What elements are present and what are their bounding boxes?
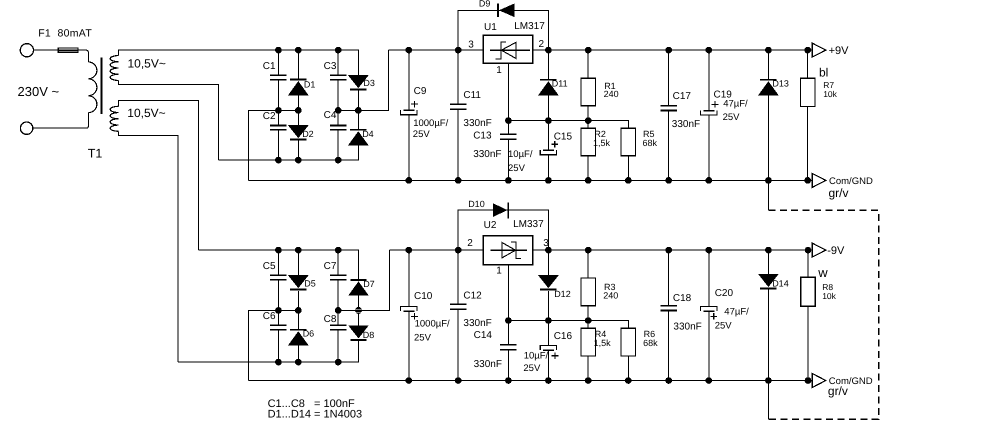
capacitor C16 (540, 345, 558, 359)
node bridge2 mid-left junctions (275, 307, 282, 314)
wire C9 leads (408, 50, 410, 180)
resistor R1 (581, 78, 595, 106)
fuse F1 (58, 48, 78, 52)
svg-text:C4: C4 (324, 110, 337, 121)
node top gnd rail junctions (405, 177, 412, 184)
wire C10 leads (408, 250, 410, 380)
mains terminal circle top (20, 44, 33, 57)
svg-text:330nF: 330nF (473, 149, 501, 160)
svg-text:10k: 10k (822, 291, 836, 301)
wire D13 leads (767, 50, 769, 180)
wire secondary2 upper lead (118, 100, 198, 250)
svg-text:330nF: 330nF (463, 318, 491, 329)
wire leg D1 upper (297, 50, 299, 110)
svg-text:2: 2 (467, 238, 473, 249)
capacitor C1 (270, 75, 287, 79)
node bridge2 mid C7-C8 (335, 307, 342, 314)
svg-text:D14: D14 (772, 278, 789, 288)
wire R4 leads (587, 321, 589, 381)
transformer T1 core (101, 57, 103, 114)
svg-text:D1...D14 = 1N4003: D1...D14 = 1N4003 (268, 409, 362, 421)
wire dashed ground link box (768, 210, 878, 419)
capacitor C15 (540, 141, 558, 155)
wire mains top to fuse (34, 49, 59, 51)
node AC1 upper rail junctions (275, 47, 282, 54)
wire D9 loop (458, 10, 548, 50)
svg-text:25V: 25V (523, 363, 541, 374)
svg-text:LM337: LM337 (513, 219, 544, 230)
wire leg D3 segment (357, 90, 359, 111)
wire C19 leads (708, 50, 710, 180)
svg-text:-9V: -9V (827, 245, 845, 257)
wire leg D7 segment (358, 295, 360, 310)
svg-text:D12: D12 (554, 289, 571, 299)
svg-text:68k: 68k (643, 338, 658, 348)
node adj rail junctions (505, 117, 512, 124)
capacitor C18 (660, 306, 677, 311)
svg-text:D11: D11 (552, 79, 568, 89)
terminal Com/GND top (812, 173, 826, 187)
node bridge1 mid-left junctions (275, 107, 282, 114)
capacitor C6 (270, 325, 287, 329)
svg-text:C6: C6 (263, 311, 276, 322)
svg-text:330nF: 330nF (474, 359, 502, 370)
diode D3 (348, 75, 369, 89)
wire D12 leads (547, 250, 549, 320)
svg-text:U1: U1 (484, 22, 497, 33)
terminal Com/GND bottom (812, 374, 826, 388)
resistor R2 (581, 128, 595, 156)
svg-text:U2: U2 (484, 220, 497, 231)
wire D14 leads (767, 250, 769, 380)
svg-text:F1 80mAT: F1 80mAT (38, 28, 92, 40)
svg-text:D10: D10 (468, 199, 485, 209)
wire C15 leads (547, 121, 549, 181)
capacitor C20 (701, 307, 718, 320)
svg-text:25V: 25V (413, 129, 431, 140)
svg-text:C1: C1 (263, 61, 276, 72)
wire C20 leads (708, 250, 710, 380)
svg-text:230V ~: 230V ~ (18, 84, 60, 99)
svg-text:330nF: 330nF (672, 119, 700, 130)
wire AC1 upper rail (118, 50, 358, 75)
wire AC1 lower rail (199, 250, 359, 280)
svg-text:C5: C5 (263, 261, 276, 272)
svg-text:1000µF/: 1000µF/ (413, 118, 448, 129)
wire R5 leads (627, 156, 629, 181)
svg-text:D6: D6 (303, 329, 315, 339)
diode D6 (288, 330, 309, 346)
wire leg C6 lower (277, 310, 279, 362)
wire leg D2 lower (297, 110, 299, 160)
svg-text:C2: C2 (263, 111, 276, 122)
capacitor C4 (330, 125, 347, 129)
wire gnd link stub bottom (767, 381, 769, 420)
svg-text:C13: C13 (473, 131, 492, 142)
wire leg C1 upper (277, 50, 279, 110)
mains terminal circle bottom (20, 122, 32, 134)
svg-text:C9: C9 (414, 86, 427, 97)
capacitor C12 (450, 304, 467, 309)
svg-text:C18: C18 (673, 293, 692, 304)
svg-text:330nF: 330nF (463, 118, 491, 129)
svg-text:C17: C17 (673, 91, 692, 102)
wire bridge1 gnd exit (248, 110, 298, 180)
terminal -9V (812, 243, 826, 257)
svg-text:C16: C16 (554, 331, 573, 342)
capacitor C2 (270, 125, 287, 129)
wire C11 leads (457, 50, 459, 180)
wire AC2 lower bridge bottom rail (178, 341, 358, 362)
wire bridge2 dc exit (338, 250, 389, 310)
wire leg D8 segment (358, 310, 360, 325)
svg-text:1: 1 (496, 266, 502, 277)
wire R8 leads (807, 250, 809, 380)
svg-text:C12: C12 (463, 291, 482, 302)
svg-text:C11: C11 (463, 90, 481, 101)
capacitor C13 (500, 134, 517, 139)
svg-text:D13: D13 (772, 79, 789, 89)
diode D5 (288, 275, 309, 289)
svg-text:10µF/: 10µF/ (524, 351, 549, 362)
svg-text:10,5V~: 10,5V~ (128, 57, 166, 71)
U2 internal regulator symbol (491, 242, 527, 258)
resistor R4 (581, 328, 595, 356)
diode D4 (348, 130, 369, 146)
capacitor C14 (500, 345, 517, 350)
capacitor C3 (330, 75, 347, 79)
wire leg C5 upper (277, 250, 279, 310)
terminal +9V (812, 43, 826, 57)
svg-text:+9V: +9V (829, 45, 850, 57)
wire C14 leads (507, 321, 509, 381)
node AC1 lower rail junctions (275, 247, 282, 254)
node bridge1 bottom junctions (275, 157, 282, 164)
capacitor C10 (401, 306, 418, 319)
svg-text:D1: D1 (304, 79, 316, 89)
wire mains bottom to primary (33, 113, 89, 129)
svg-text:D8: D8 (363, 330, 375, 340)
wire leg D5 upper (297, 250, 299, 310)
svg-text:C7: C7 (324, 261, 337, 272)
svg-text:LM317: LM317 (514, 21, 545, 32)
resistor R7 (801, 78, 815, 106)
resistor R3 (581, 278, 595, 306)
diode D13 (758, 80, 779, 96)
wire C12 leads (457, 250, 459, 380)
svg-text:25V: 25V (414, 332, 432, 343)
svg-text:C15: C15 (554, 132, 573, 143)
wire bridge2 gnd exit (249, 310, 299, 380)
wire C17 leads (668, 50, 670, 180)
wire top gnd rail (248, 179, 807, 181)
svg-text:D3: D3 (363, 78, 375, 88)
capacitor C11 (450, 104, 467, 109)
wire bottom gnd rail (249, 380, 808, 382)
node dc+ rail junctions (405, 47, 412, 54)
svg-text:240: 240 (603, 291, 618, 301)
svg-text:C10: C10 (414, 291, 433, 302)
capacitor C9 (401, 101, 418, 115)
wire to -9V terminal (808, 249, 812, 251)
node dc- rail junctions (405, 247, 412, 254)
svg-text:2: 2 (539, 39, 545, 50)
node bridge1 mid-right junctions (335, 107, 342, 114)
resistor R6 (621, 328, 635, 356)
svg-text:C20: C20 (715, 288, 734, 299)
wire dc- rail left (389, 249, 483, 251)
wire secondary2 lower lead (118, 131, 178, 362)
wire adj rail top (508, 121, 628, 129)
op-amp U2 regulator LM337 box (483, 236, 532, 265)
svg-text:10µF/: 10µF/ (508, 149, 533, 160)
wire leg D6 lower (297, 310, 299, 362)
wire U1 pin1 lead (507, 63, 509, 120)
svg-text:D4: D4 (362, 129, 374, 139)
wire C18 leads (668, 250, 670, 380)
wire dc+ rail right (533, 49, 813, 51)
wire D11 leads (547, 50, 549, 121)
svg-text:1000µF/: 1000µF/ (415, 318, 450, 329)
resistor R5 (621, 128, 635, 156)
diode D9 (498, 3, 515, 17)
svg-text:Com/GND: Com/GND (829, 176, 873, 187)
diode D14 (758, 274, 779, 288)
wire U2 pin1 lead (507, 265, 509, 321)
wire R1 leads (587, 50, 589, 121)
diode D12 (538, 275, 559, 289)
wire leg C8 lower (337, 310, 339, 362)
svg-text:25V: 25V (723, 112, 741, 123)
diode D7 (348, 280, 369, 296)
svg-text:D2: D2 (302, 129, 314, 139)
diode D2 (288, 125, 309, 139)
svg-text:D7: D7 (363, 279, 375, 289)
svg-text:D9: D9 (479, 0, 491, 9)
wire C13 leads (507, 121, 509, 181)
wire to top Com/GND terminal (808, 179, 813, 181)
wire leg D4 segment (357, 110, 359, 129)
op-amp U1 regulator LM317 box (483, 35, 532, 63)
svg-text:25V: 25V (508, 163, 526, 174)
wire fuse to transformer primary (78, 50, 88, 62)
transformer T1 secondary winding 1 (110, 56, 118, 81)
wire R6 leads (627, 356, 629, 381)
resistor R8 (801, 277, 815, 306)
wire leg C2 lower (277, 110, 279, 160)
capacitor C7 (330, 275, 347, 279)
svg-text:68k: 68k (643, 138, 658, 148)
diode D10 (493, 202, 508, 218)
svg-text:gr/v: gr/v (828, 384, 848, 398)
capacitor C19 (701, 101, 719, 115)
wire secondary1 lower lead (118, 81, 218, 161)
wire gnd link stub top (767, 180, 769, 210)
svg-text:C8: C8 (324, 314, 337, 325)
svg-text:C14: C14 (474, 330, 493, 341)
U1 internal regulator symbol (490, 42, 530, 59)
svg-text:1: 1 (496, 65, 502, 76)
node bridge2 bottom junctions (275, 359, 282, 366)
wire R3 leads (587, 250, 589, 320)
svg-text:10k: 10k (823, 89, 837, 99)
svg-text:10,5V~: 10,5V~ (127, 106, 165, 120)
diode D8 (348, 325, 369, 339)
svg-text:3: 3 (468, 40, 474, 51)
svg-text:1,5k: 1,5k (593, 138, 611, 148)
wire leg C3 upper (337, 50, 339, 110)
svg-text:25V: 25V (715, 321, 733, 332)
wire R7 leads (807, 50, 809, 180)
wire leg C4 lower (337, 110, 339, 160)
diode D1 (288, 80, 309, 96)
node bottom gnd rail junctions (405, 377, 412, 384)
transformer T1 primary winding (88, 62, 96, 113)
svg-text:1,5k: 1,5k (594, 338, 612, 348)
wire to bottom Com/GND terminal (808, 380, 812, 382)
svg-text:47µF/: 47µF/ (724, 307, 749, 318)
capacitor C8 (330, 325, 347, 329)
wire to +9V terminal (808, 49, 813, 51)
wire dc+ rail left (389, 49, 484, 51)
svg-text:D5: D5 (304, 278, 316, 288)
wire adj rail bottom (508, 321, 628, 329)
svg-text:47µF/: 47µF/ (723, 98, 748, 109)
wire AC2 upper bridge bottom rail (218, 146, 358, 161)
node adj rail lower junctions (505, 317, 512, 324)
wire R2 leads (587, 121, 589, 181)
wire bridge1 dc exit (338, 50, 388, 110)
svg-text:330nF: 330nF (673, 322, 701, 333)
svg-text:C3: C3 (324, 61, 337, 72)
svg-text:T1: T1 (88, 147, 103, 161)
capacitor C17 (660, 106, 677, 111)
diode D11 (538, 80, 559, 96)
svg-text:240: 240 (604, 89, 619, 99)
node bridge2 mid D7-D8 junction (355, 307, 362, 314)
wire dc- rail right (533, 249, 813, 251)
wire C16 leads (547, 321, 549, 381)
svg-text:gr/v: gr/v (829, 186, 849, 200)
wire leg C7 upper (337, 250, 339, 310)
transformer T1 secondary winding 2 (110, 106, 118, 131)
svg-text:bl: bl (819, 66, 828, 80)
wire D10 loop (458, 210, 548, 250)
svg-text:3: 3 (543, 238, 549, 249)
svg-text:w: w (817, 265, 828, 280)
capacitor C5 (270, 275, 287, 279)
